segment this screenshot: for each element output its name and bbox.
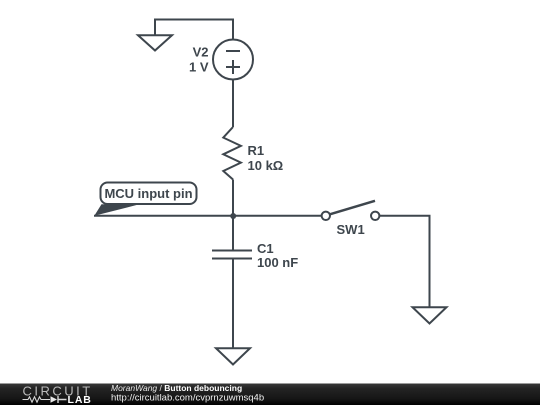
svg-text:MCU input pin: MCU input pin [104, 186, 192, 201]
wire V2 bottom to resistor R1 top [232, 80, 234, 128]
wire capacitor bottom to ground [232, 259, 234, 349]
ground GND2 bottom [216, 348, 250, 364]
capacitor C1 [212, 251, 252, 259]
ground GND3 right [413, 307, 447, 323]
switch SW1 [322, 201, 380, 220]
wire top-left to V2 top [155, 20, 233, 41]
svg-text:1 V: 1 V [189, 60, 209, 75]
svg-text:MoranWang / Button debouncing: MoranWang / Button debouncing [111, 383, 242, 393]
wire resistor bottom to node [232, 180, 234, 217]
svg-text:LAB: LAB [68, 394, 92, 405]
resistor R1 [223, 127, 241, 180]
CircuitLab logo [23, 384, 93, 405]
svg-text:100 nF: 100 nF [257, 255, 298, 270]
wire node to capacitor C1 top [232, 216, 234, 250]
svg-text:V2: V2 [193, 45, 209, 60]
svg-text:http://circuitlab.com/cvprnzuw: http://circuitlab.com/cvprnzuwmsq4b [111, 393, 264, 404]
wire horizontal MCU pin to switch SW1 [94, 215, 322, 217]
ground GND1 top-left [138, 35, 172, 50]
svg-text:C1: C1 [257, 241, 274, 256]
svg-text:10 kΩ: 10 kΩ [248, 158, 284, 173]
wire switch to right ground [380, 216, 430, 307]
voltage source V2 [213, 40, 253, 80]
svg-text:R1: R1 [248, 143, 265, 158]
callout MCU input pin [94, 183, 196, 216]
junction node [230, 213, 236, 219]
svg-text:SW1: SW1 [337, 222, 365, 237]
